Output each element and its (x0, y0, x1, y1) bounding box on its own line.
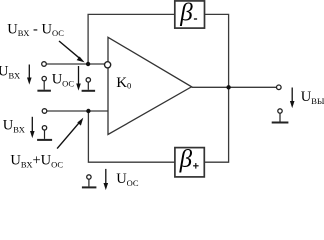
svg-text:β: β (179, 146, 193, 173)
svg-text:β: β (179, 0, 193, 27)
